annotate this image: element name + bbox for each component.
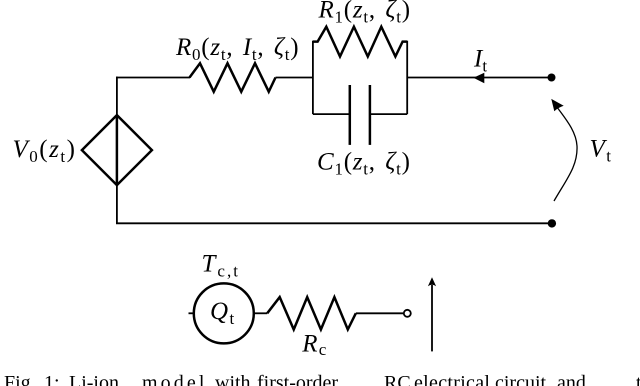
wire: capacitor branch right lead <box>370 113 407 115</box>
arrowhead: heat-flow arrow (points up) <box>428 277 436 286</box>
wire: source V0 bottom to bottom rail <box>116 185 118 223</box>
wire: capacitor branch left lead <box>313 113 350 115</box>
dependent source V0 diamond <box>82 115 152 185</box>
svg-text:Qt: Qt <box>210 298 236 328</box>
wire: top-left vertical from top rail down to source V0 <box>116 77 118 116</box>
wire: RC-block right node to right terminal <box>407 77 551 79</box>
dependent source V0 internal bar <box>116 115 119 185</box>
resistor R1 zigzag <box>313 27 407 57</box>
resistor Rc zigzag <box>267 297 356 329</box>
wire: Vt measurement curved arrow <box>554 102 578 201</box>
caption: Fig. 1 <box>0 0 640 1</box>
resistor R0 zigzag <box>190 63 276 91</box>
svg-text:C1(zt, ζt): C1(zt, ζt) <box>317 149 411 179</box>
wire: Rc to open terminal <box>356 312 403 314</box>
svg-text:Rc: Rc <box>301 331 327 360</box>
wire: Qt to Rc <box>254 312 267 314</box>
wire: between R0 and RC-block left node <box>276 77 313 79</box>
svg-text:R1(zt, ζt): R1(zt, ζt) <box>318 0 411 27</box>
open terminal circle (thermal) <box>404 310 411 317</box>
arrowhead: current It (points left) <box>473 73 484 84</box>
arrowhead: Vt curved arrow <box>551 99 563 111</box>
wire: thermal source Qt left stub <box>189 312 194 314</box>
svg-text:V0(zt): V0(zt) <box>13 136 77 166</box>
capacitor C1 left plate <box>349 85 352 145</box>
terminal dot top right <box>548 74 556 82</box>
wire: bottom rail <box>116 222 552 224</box>
capacitor C1 right plate <box>369 85 372 145</box>
node: RC-block left vertical bus <box>312 41 314 114</box>
node: RC-block right vertical bus <box>406 41 408 114</box>
svg-text:It: It <box>473 46 487 76</box>
wire: heat-flow arrow shaft <box>431 285 433 351</box>
terminal dot bottom right <box>548 219 556 227</box>
heat source Qt circle <box>194 283 254 343</box>
svg-text:Vt: Vt <box>590 136 613 166</box>
svg-text:Tc,t: Tc,t <box>202 251 240 281</box>
svg-text:R0(zt, It, ζt): R0(zt, It, ζt) <box>175 34 299 64</box>
wire: top rail from corner to R0 <box>116 77 190 79</box>
